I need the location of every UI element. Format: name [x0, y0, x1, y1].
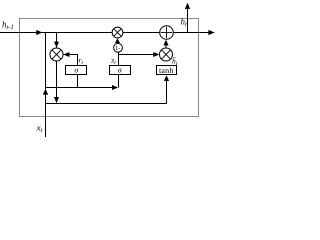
svg-text:1-: 1- [115, 45, 120, 52]
svg-text:tanh: tanh [159, 66, 174, 75]
